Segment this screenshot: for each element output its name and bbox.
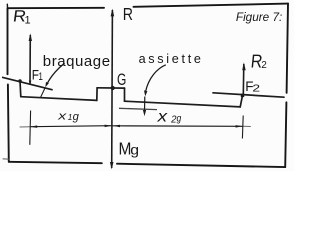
svg-text:g: g [130,144,139,159]
svg-text:2: 2 [252,82,260,94]
svg-text:assiette: assiette [139,52,204,66]
svg-text:1: 1 [38,71,43,84]
svg-text:g: g [177,113,182,124]
svg-text:2: 2 [261,60,267,71]
svg-text:G: G [117,71,126,89]
svg-text:x: x [157,107,169,125]
svg-text:braquage: braquage [43,53,111,70]
svg-text:R: R [123,6,133,25]
svg-text:1: 1 [25,14,31,26]
svg-text:g: g [73,111,80,123]
svg-text:x: x [57,110,67,122]
svg-text:Figure 7:: Figure 7: [236,10,282,24]
